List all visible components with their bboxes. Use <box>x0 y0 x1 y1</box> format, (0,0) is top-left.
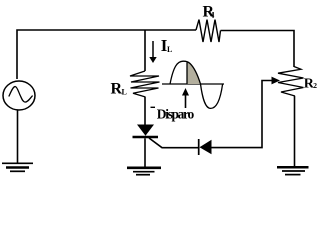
svg-text:2: 2 <box>313 81 317 90</box>
svg-text:Disparo: Disparo <box>157 107 195 122</box>
svg-text:L: L <box>167 45 172 54</box>
svg-text:L: L <box>122 88 127 97</box>
